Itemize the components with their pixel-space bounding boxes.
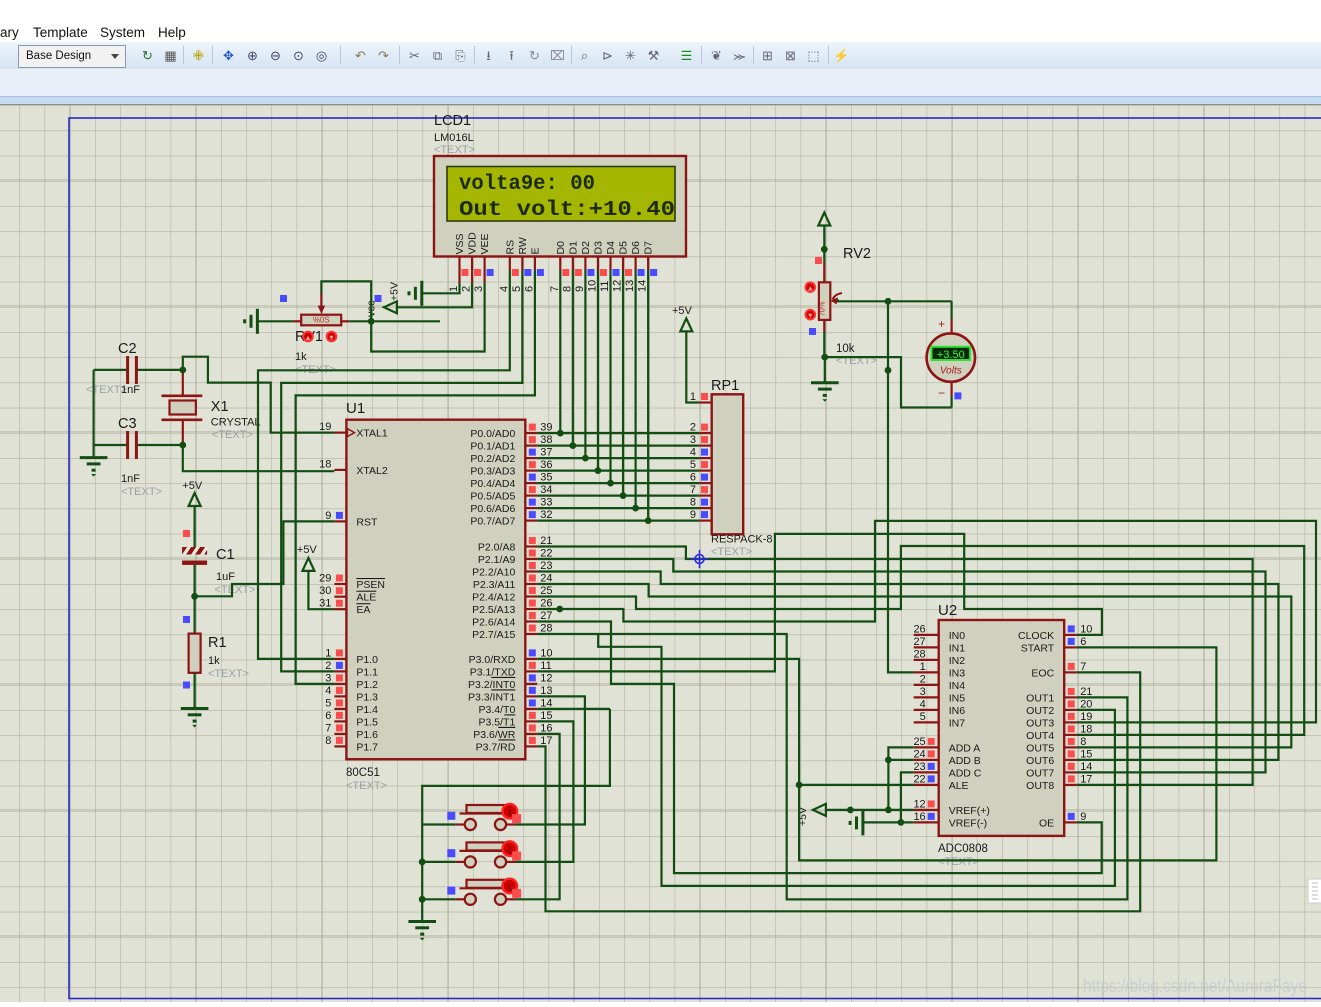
pin U2.4 IN6: [914, 709, 939, 711]
wire XTAL1 net: [183, 357, 335, 433]
pin U1.31 EA: [334, 608, 346, 610]
svg-text:IN3: IN3: [949, 667, 966, 679]
svg-text:25: 25: [913, 736, 925, 748]
LCD pin 1 VSS: [458, 256, 460, 283]
wire LCD D5 column: [622, 270, 624, 496]
crystal X1: [170, 401, 196, 415]
wire VSS to ground: [422, 283, 460, 294]
svg-text:D4: D4: [605, 241, 617, 255]
node RV2 bottom: [821, 354, 828, 361]
svg-text:8: 8: [325, 735, 331, 747]
pin U2.17 OUT8: [1064, 784, 1077, 786]
LCD pin 10 D3: [597, 256, 599, 270]
pin U1.17 P3.7/RD: [525, 745, 537, 747]
svg-text:6: 6: [523, 286, 535, 292]
LCD pin 13 D6: [634, 256, 636, 270]
wire P2.6-OE: [537, 622, 1101, 874]
svg-text:25: 25: [540, 585, 552, 597]
pin U2.15 OUT6: [1064, 759, 1077, 761]
svg-text:VEE: VEE: [479, 233, 491, 254]
wire LCD D3 column: [597, 270, 599, 471]
svg-text:OUT5: OUT5: [1026, 742, 1054, 754]
wire VREF- row: [864, 821, 914, 823]
svg-text:ALE: ALE: [949, 780, 969, 792]
svg-text:P0.5/AD5: P0.5/AD5: [470, 491, 515, 503]
pin U2.26 IN0: [914, 634, 939, 636]
pin U1.21 P2.0/A8: [525, 545, 537, 547]
svg-text:P1.5: P1.5: [356, 716, 378, 728]
pin U1.39 P0.0/AD0: [525, 432, 537, 434]
svg-text:VREF(+): VREF(+): [949, 805, 990, 817]
wire btn3 to P3.6: [515, 734, 560, 899]
LCD LCD1 body: [434, 156, 686, 257]
wire VREF+ row: [826, 809, 913, 811]
svg-text:13: 13: [540, 685, 552, 697]
svg-text:↕: ↕: [507, 844, 512, 855]
wire LCD D2 column: [584, 270, 586, 458]
svg-text:P1.6: P1.6: [356, 729, 378, 741]
pot RV1 body: [293, 320, 301, 322]
pin U2.8 OUT5: [1064, 746, 1077, 748]
svg-text:P1.7: P1.7: [356, 741, 378, 753]
svg-text:36: 36: [540, 459, 552, 471]
pin U2.5 IN7: [914, 721, 939, 723]
svg-text:P2.3/A11: P2.3/A11: [473, 579, 516, 591]
wire RV2 wiper row: [838, 300, 952, 302]
pin U1.4 P1.3: [334, 695, 346, 697]
svg-text:PSEN: PSEN: [356, 579, 385, 591]
svg-text:6: 6: [690, 472, 696, 484]
node D6/P0.6: [632, 505, 639, 512]
svg-text:9: 9: [325, 510, 331, 522]
svg-text:<TEXT>: <TEXT>: [208, 668, 249, 680]
wire P3.0-ALE-START: [537, 647, 1216, 860]
svg-text:RESPACK-8: RESPACK-8: [711, 534, 773, 546]
svg-text:31: 31: [319, 598, 331, 610]
svg-text:+: +: [938, 317, 945, 331]
svg-text:P3.4/T0: P3.4/T0: [479, 704, 516, 716]
pin U2.6 START: [1064, 646, 1077, 648]
pin U2.14 OUT7: [1064, 771, 1077, 773]
power +5V (VDD): [384, 301, 397, 313]
svg-text:12: 12: [913, 798, 925, 810]
svg-text:IN0: IN0: [949, 630, 966, 642]
pin U1.27 P2.6/A14: [525, 620, 537, 622]
wire ALE row: [799, 784, 914, 786]
svg-text:▼: ▼: [807, 311, 814, 320]
wire ADD C: [901, 772, 914, 822]
pin U1.1 P1.0: [334, 658, 346, 660]
node vcc junction: [368, 318, 375, 325]
pin RP1.5: [699, 470, 712, 472]
svg-text:1nF: 1nF: [121, 473, 140, 485]
LCD pin 3 VEE: [484, 256, 486, 283]
svg-text:RP1: RP1: [711, 378, 739, 394]
pin RP1.9: [699, 519, 712, 521]
pin U2.23 ADD C: [914, 771, 939, 773]
svg-text:OUT6: OUT6: [1026, 755, 1054, 767]
svg-text:+5V: +5V: [672, 305, 693, 317]
logic squares RV1 area: [280, 295, 287, 302]
pin U1.36 P0.3/AD3: [525, 470, 537, 472]
pot RV1 wiper arrow: [320, 293, 322, 307]
pin U2.21 OUT1: [1064, 696, 1077, 698]
pin U1.8 P1.7: [334, 745, 346, 747]
LCD pin 5 RW: [521, 256, 523, 270]
svg-text:7: 7: [690, 484, 696, 496]
svg-text:▼: ▼: [328, 333, 335, 342]
wire btn1 left: [422, 823, 456, 825]
svg-text:1nF: 1nF: [121, 384, 140, 396]
svg-text:28: 28: [913, 648, 925, 660]
svg-text:+3.50: +3.50: [937, 349, 965, 361]
node X1 bottom: [179, 442, 186, 449]
svg-text:P1.0: P1.0: [356, 654, 378, 666]
wire E column: [296, 270, 535, 684]
power +5V (VREF+): [813, 804, 826, 816]
svg-text:VSS: VSS: [454, 233, 466, 254]
pin U2.27 IN1: [914, 646, 939, 648]
wire XTAL2 net: [183, 445, 335, 471]
svg-text:24: 24: [540, 573, 552, 585]
svg-text:D2: D2: [580, 241, 592, 255]
svg-text:P3.7/RD: P3.7/RD: [476, 741, 516, 753]
ground (RV1 left): [256, 309, 259, 334]
wire P0.7 to RP1.9: [537, 519, 699, 521]
svg-text:▲: ▲: [807, 284, 814, 293]
svg-text:14: 14: [1080, 761, 1092, 773]
wire ADD B: [888, 759, 913, 761]
svg-text:15: 15: [540, 710, 552, 722]
wire btn2 to P3.5: [515, 721, 573, 862]
svg-text:4: 4: [498, 286, 510, 292]
svg-text:1: 1: [690, 391, 696, 403]
svg-text:CRYSTAL: CRYSTAL: [211, 417, 261, 429]
wire P2.4-OUT4: [537, 546, 1304, 735]
resistor R1: [194, 596, 196, 633]
wire gnd to RV1: [257, 320, 293, 322]
pin U1.32 P0.7/AD7: [525, 519, 537, 521]
svg-text:IN6: IN6: [949, 705, 966, 717]
svg-text:P3.2/INT0: P3.2/INT0: [468, 679, 515, 691]
node D5/P0.5: [620, 492, 627, 499]
wire P2.2-OUT6: [537, 572, 1278, 760]
wire LCD D0 column: [559, 270, 561, 433]
svg-text:+5V: +5V: [389, 282, 401, 301]
svg-text:OUT8: OUT8: [1026, 780, 1054, 792]
svg-text:<TEXT>: <TEXT>: [434, 144, 475, 156]
svg-text:CLOCK: CLOCK: [1018, 630, 1054, 642]
svg-text:P1.3: P1.3: [356, 691, 378, 703]
pin RP1.6: [699, 482, 712, 484]
svg-text:27: 27: [913, 636, 925, 648]
svg-text:27: 27: [540, 610, 552, 622]
node VREF- junction: [898, 819, 905, 826]
svg-text:%0S: %0S: [313, 316, 329, 325]
LCD pin 12 D5: [622, 256, 624, 270]
pin U1.38 P0.1/AD1: [525, 445, 537, 447]
svg-text:XTAL1: XTAL1: [356, 428, 387, 440]
pin U1.15 P3.5/T1: [525, 720, 537, 722]
svg-text:IN7: IN7: [949, 717, 966, 729]
svg-text:R1: R1: [208, 635, 227, 651]
pin U1.2 P1.1: [334, 670, 346, 672]
wire button bus: [422, 709, 610, 921]
pin U2.18 OUT4: [1064, 734, 1077, 736]
wire P2.1-OUT7: [537, 559, 1265, 772]
logic square voltmeter: [954, 392, 961, 399]
svg-text:14: 14: [637, 280, 649, 292]
pin RP1.7: [699, 495, 712, 497]
capacitor C1: [182, 547, 207, 555]
node ALE junction: [796, 782, 803, 789]
pin U1.14 P3.4/T0: [525, 708, 537, 710]
pin U2.20 OUT2: [1064, 709, 1077, 711]
pin U1.23 P2.2/A10: [525, 570, 537, 572]
svg-text:OUT2: OUT2: [1026, 705, 1054, 717]
wire OUT2 link: [598, 634, 1115, 886]
svg-text:10k: 10k: [836, 343, 855, 355]
ground (R1): [181, 707, 209, 710]
wire voltmeter minus: [825, 357, 952, 407]
svg-text:16: 16: [913, 811, 925, 823]
pin U1.5 P1.4: [334, 708, 346, 710]
svg-text:32: 32: [540, 509, 552, 521]
ground (buttons): [408, 920, 436, 923]
svg-text:OUT4: OUT4: [1026, 730, 1054, 742]
svg-text:U1: U1: [346, 400, 365, 417]
svg-text:RW: RW: [517, 237, 529, 254]
svg-text:D5: D5: [618, 241, 630, 255]
LCD pin 2 VDD: [471, 256, 473, 283]
svg-text:EA: EA: [356, 604, 370, 616]
svg-text:OUT1: OUT1: [1026, 692, 1054, 704]
svg-text:C1: C1: [216, 547, 235, 563]
node RV2 wiper/IN3: [885, 298, 892, 305]
pin U1.16 P3.6/WR: [525, 733, 537, 735]
svg-text:7: 7: [549, 286, 561, 292]
svg-text:+5V: +5V: [297, 544, 318, 556]
LCD pin 9 D2: [584, 256, 586, 270]
svg-text:<TEXT>: <TEXT>: [938, 856, 979, 868]
LCD LCD1 screen: [447, 167, 675, 222]
pin U2.28 IN2: [914, 659, 939, 661]
svg-text:3: 3: [473, 286, 485, 292]
svg-text:P0.2/AD2: P0.2/AD2: [470, 453, 515, 465]
svg-text:P0.3/AD3: P0.3/AD3: [470, 466, 515, 478]
node VREF+ dot2: [847, 807, 854, 814]
pin U1.34 P0.5/AD5: [525, 495, 537, 497]
logic square C1 top: [183, 530, 190, 537]
pin U2.3 IN5: [914, 696, 939, 698]
svg-text:P3.0/RXD: P3.0/RXD: [469, 654, 516, 666]
svg-text:26: 26: [913, 623, 925, 635]
wire P0.6 to RP1.8: [537, 507, 699, 509]
svg-text:1uF: 1uF: [216, 571, 235, 583]
pin U1.37 P0.2/AD2: [525, 457, 537, 459]
svg-text:OE: OE: [1039, 817, 1054, 829]
pot RV2 buttons: [806, 282, 816, 292]
svg-text:ADD B: ADD B: [949, 755, 981, 767]
svg-text:↕: ↕: [507, 807, 512, 818]
svg-text:1k: 1k: [295, 351, 307, 363]
LCD pin 4 RS: [509, 256, 511, 270]
svg-text:P2.5/A13: P2.5/A13: [472, 604, 515, 616]
svg-text:39: 39: [540, 422, 552, 434]
pin U2.2 IN4: [914, 684, 939, 686]
pin U1.13 P3.3/INT1: [525, 695, 537, 697]
svg-text:<TEXT>: <TEXT>: [215, 584, 256, 596]
svg-text:ADD C: ADD C: [949, 767, 982, 779]
node IN3 wire dot: [885, 367, 892, 374]
pin U1.7 P1.6: [334, 733, 346, 735]
wire ADD A: [888, 747, 913, 810]
pin U2.19 OUT3: [1064, 721, 1077, 723]
pin RP1.1: [699, 401, 712, 403]
pin U1.12 P3.2/INT0: [525, 683, 537, 685]
svg-text:3: 3: [325, 672, 331, 684]
wire P2.5-OUT3: [537, 521, 1316, 723]
pin RP1.3: [699, 445, 712, 447]
svg-text:35: 35: [540, 472, 552, 484]
svg-text:26: 26: [540, 598, 552, 610]
svg-text:<TEXT>: <TEXT>: [121, 486, 162, 498]
LCD pin 7 D0: [559, 256, 561, 270]
ic U1 80C51 body: [346, 420, 525, 760]
wire R1 to ground: [194, 673, 196, 709]
svg-text:21: 21: [540, 535, 552, 547]
wire P0.5 to RP1.7: [537, 495, 699, 497]
svg-text:LCD1: LCD1: [434, 113, 471, 129]
svg-text:P0.6/AD6: P0.6/AD6: [470, 503, 515, 515]
origin marker: [691, 550, 708, 568]
pin U1.33 P0.6/AD6: [525, 507, 537, 509]
svg-text:OUT7: OUT7: [1026, 767, 1054, 779]
svg-text:▲: ▲: [304, 333, 311, 342]
svg-text:8: 8: [1080, 736, 1086, 748]
svg-text:10: 10: [540, 647, 552, 659]
wire P2.3-OUT5: [537, 584, 1291, 747]
svg-text:5: 5: [511, 286, 523, 292]
svg-text:10: 10: [1080, 623, 1092, 635]
pin U1.24 P2.3/A11: [525, 583, 537, 585]
node VREF+ junction: [885, 807, 892, 814]
pin U1.22 P2.1/A9: [525, 558, 537, 560]
pin U1.19 XTAL1: [334, 432, 346, 434]
svg-text:5: 5: [690, 459, 696, 471]
svg-text:volta9e: 00: volta9e: 00: [459, 173, 595, 196]
pin RP1.4: [699, 457, 712, 459]
svg-text:2: 2: [690, 422, 696, 434]
svg-text:<TEXT>: <TEXT>: [711, 546, 752, 558]
wire RV1 wiper to vcc: [321, 281, 371, 321]
svg-text:18: 18: [319, 458, 331, 470]
pin RP1.8: [699, 507, 712, 509]
node C1/R1: [191, 593, 198, 600]
svg-text:23: 23: [540, 560, 552, 572]
svg-text:34: 34: [540, 484, 552, 496]
svg-text:P0.1/AD1: P0.1/AD1: [470, 441, 515, 453]
svg-text:RST: RST: [356, 516, 378, 528]
voltmeter body: [950, 301, 952, 319]
svg-text:P1.2: P1.2: [356, 679, 378, 691]
svg-text:22: 22: [913, 773, 925, 785]
pin U1.29 PSEN: [334, 583, 346, 585]
respack RP1 body: [712, 394, 744, 534]
svg-text:IN1: IN1: [949, 642, 966, 654]
svg-text:X1: X1: [211, 399, 229, 415]
wire LCD D7 column: [647, 270, 649, 521]
pin U1.18 XTAL2: [334, 469, 346, 471]
svg-text:12: 12: [540, 672, 552, 684]
wire btn3 left: [422, 898, 456, 900]
button 1: [456, 823, 465, 825]
node D0/P0.0: [557, 430, 564, 437]
svg-text:7: 7: [1080, 661, 1086, 673]
svg-text:P3.6/WR: P3.6/WR: [473, 729, 515, 741]
svg-text:U2: U2: [938, 602, 957, 619]
svg-text:ALE: ALE: [356, 592, 376, 604]
svg-text:8: 8: [561, 286, 573, 292]
wire P2.0-OUT8: [537, 547, 1252, 785]
pin U1.9 RST: [334, 520, 346, 522]
svg-text:OUT3: OUT3: [1026, 717, 1054, 729]
svg-text:P2.6/A14: P2.6/A14: [472, 617, 515, 629]
svg-text:17: 17: [1080, 773, 1092, 785]
pin U1.11 P3.1/TXD: [525, 670, 537, 672]
svg-text:Out volt:+10.40: Out volt:+10.40: [459, 199, 675, 222]
svg-text:28: 28: [540, 623, 552, 635]
svg-text:https://blog.csdn.net/AuroraFa: https://blog.csdn.net/AuroraFaye: [1083, 976, 1307, 996]
svg-text:IN2: IN2: [949, 655, 966, 667]
wire LCD D1 column: [572, 270, 574, 446]
node P2.5 row dot: [556, 606, 563, 613]
svg-text:2: 2: [461, 286, 473, 292]
svg-text:D1: D1: [567, 241, 579, 255]
svg-text:5: 5: [325, 697, 331, 709]
pin U2.12 VREF(+): [914, 809, 939, 811]
svg-text:3: 3: [920, 686, 926, 698]
node ADD B junction: [885, 757, 892, 764]
svg-text:P1.1: P1.1: [356, 666, 378, 678]
svg-text:12: 12: [612, 280, 624, 292]
svg-text:<TEXT>: <TEXT>: [212, 429, 253, 441]
svg-text:4: 4: [920, 698, 926, 710]
svg-text:RS: RS: [504, 240, 516, 255]
wire P2.7-OUT1: [537, 634, 1127, 899]
svg-text:1k: 1k: [208, 655, 220, 667]
svg-text:IN5: IN5: [949, 692, 966, 704]
node bus/btn2: [419, 859, 426, 866]
svg-text:70%: 70%: [818, 301, 827, 316]
svg-text:9: 9: [574, 286, 586, 292]
wire RV1 out east: [349, 320, 440, 322]
svg-text:START: START: [1021, 642, 1055, 654]
svg-text:IN4: IN4: [949, 680, 966, 692]
svg-text:D3: D3: [592, 241, 604, 255]
wire C1 to node: [194, 565, 196, 596]
svg-text:P2.1/A9: P2.1/A9: [478, 554, 516, 566]
logic square R1 bottom: [183, 682, 190, 689]
svg-text:P0.0/AD0: P0.0/AD0: [470, 428, 515, 440]
wire LCD D4 column: [609, 270, 611, 483]
svg-text:22: 22: [540, 548, 552, 560]
svg-text:P0.7/AD7: P0.7/AD7: [470, 516, 515, 528]
svg-text:ADD A: ADD A: [949, 742, 981, 754]
svg-text:P2.0/A8: P2.0/A8: [478, 542, 516, 554]
ground (VREF-): [861, 810, 864, 835]
svg-text:P0.4/AD4: P0.4/AD4: [470, 478, 515, 490]
